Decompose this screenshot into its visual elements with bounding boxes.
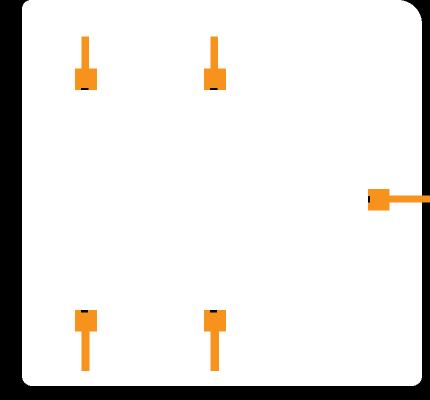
pin P$1 (top-left): stem <box>82 37 90 70</box>
pin P$5 (bottom-right): stem <box>211 332 220 372</box>
pin P$3 (right): pad box <box>368 189 390 211</box>
pin P$4 wire stub notch <box>81 310 88 313</box>
pin P$5 (bottom-right): pad box <box>204 310 226 332</box>
pin P$5 wire stub notch <box>210 310 217 313</box>
pin P$2 wire stub notch <box>210 88 218 90</box>
pin P$3 (right): stem <box>390 196 430 203</box>
pin P$4 (bottom-left): pad box <box>75 310 97 332</box>
pin P$3 wire stub notch <box>368 196 370 203</box>
pin P$2 (top-right): stem <box>211 37 219 70</box>
pin P$1 (top-left): pad box <box>75 69 97 91</box>
pin P$4 (bottom-left): stem <box>82 332 90 372</box>
pin P$1 wire stub notch <box>81 88 89 90</box>
pin P$2 (top-right): pad box <box>204 69 226 91</box>
